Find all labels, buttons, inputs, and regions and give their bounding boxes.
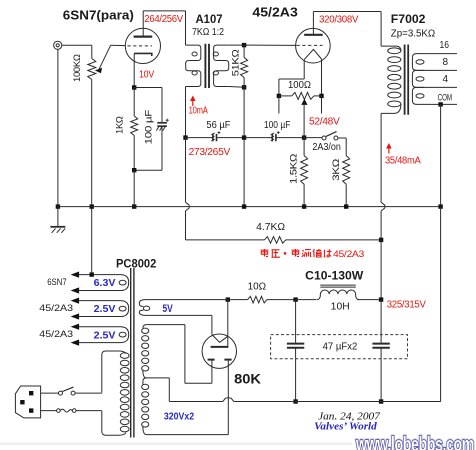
resistor R 51K leads+zigzag [241,45,248,87]
wire down to 4.7K node [380,211,382,240]
svg-text:6SN7(para): 6SN7(para) [63,9,134,23]
wire rail to 100uF [244,137,272,139]
capacitor C 47uF #1 [287,344,304,348]
svg-text:6SN7: 6SN7 [47,277,66,288]
mains plug [15,386,40,418]
wire secondary bottom lead [229,86,244,89]
node 51K-bus junction [242,204,246,208]
hum pot wiper arrow up [301,99,307,105]
choke L 10H [317,285,359,300]
node first 47uF bottom junction [293,399,297,403]
transformer T1 A107 primary winding [186,45,201,86]
wire cap branch down [161,88,163,123]
U1 cathode bar with hook [134,53,152,56]
wire HV bottom lead up to 80K right plate [227,360,229,434]
svg-text:3KΩ: 3KΩ [331,159,342,181]
svg-text:56 µF: 56 µF [206,120,230,131]
capacitor C 47uF #2 [372,344,389,348]
wire second 47uF bottom lead [380,348,382,402]
node RC-bus junction [132,204,136,208]
svg-text:F7002: F7002 [391,12,426,26]
wire bus to chassis ground [57,207,59,227]
node B+ takeoff (80K cathode) [226,297,230,301]
wire COM bus to bottom rail [440,207,442,402]
wire F7002 primary bottom down [380,113,382,202]
wire 16 ohm tap [424,53,457,55]
svg-text:Valves’ World: Valves’ World [314,421,377,432]
wire COM tap [424,103,457,105]
svg-text:80K: 80K [234,371,261,387]
T3 heater winding 6.3V [78,275,129,291]
wire 4 ohm tap [424,86,457,88]
wire secondary top to grid line [229,44,244,46]
wire rail to wiper node [276,137,304,139]
wire hop over 80K plate lead [223,398,234,402]
U3 left plate bar [208,359,215,361]
wire wiper to grid (diagonal) [99,45,111,70]
T3 heater winding 2.5V #2 [78,327,129,343]
svg-text:2.5V: 2.5V [94,303,116,315]
svg-text:273/265V: 273/265V [189,147,231,158]
wire 1K top lead [133,88,135,117]
jpeg ghost band [0,443,352,445]
svg-text:10V: 10V [139,69,155,80]
resistor R 1K zigzag [131,116,138,136]
svg-text:10mA: 10mA [189,106,208,117]
wire plug to fuse [41,410,57,412]
wire second 47uF top lead [380,300,382,343]
svg-text:8: 8 [443,57,449,68]
svg-text:47 µFx2: 47 µFx2 [323,342,358,353]
wire bottom return rail left [169,401,223,403]
wire 5V bottom to 80K filament left [211,315,213,334]
svg-text:4.7KΩ: 4.7KΩ [256,222,285,233]
wire B+ to 10R [228,299,248,301]
wire HV top lead down [184,325,186,384]
U1 grid dashed line [127,45,152,47]
wire 56uF rail left [186,137,213,139]
T3 5V winding [139,300,228,316]
U1 plate lead up [142,11,144,37]
volume pot R 100K zigzag [88,59,96,80]
U2 filament right lead [321,59,323,96]
svg-text:35/48mA: 35/48mA [385,155,421,166]
wire RC to ground bus [133,170,135,206]
svg-text:45/2A3: 45/2A3 [39,303,73,314]
node choke/B+ riser junction [379,297,383,301]
watermark www.lobebbs.com [355,433,474,450]
svg-text:2A3/on: 2A3/on [312,142,341,153]
wire pot bottom to ground bus [91,80,93,207]
wire primary feed down to bus hop [185,138,187,203]
svg-text:5V: 5V [163,303,174,315]
svg-text:100 µF: 100 µF [264,120,291,131]
svg-text:4: 4 [443,74,449,85]
svg-text:325/315V: 325/315V [387,300,427,311]
svg-text:100KΩ: 100KΩ [72,54,83,82]
dashed box around 47uF x2 [271,335,408,359]
U1 cathode lead down [133,53,135,87]
wire 3K to ground bus [345,184,347,206]
wire HV top lead right [185,382,212,384]
svg-text:100 µF: 100 µF [143,109,154,144]
U2 filament V [304,49,321,59]
svg-text:1KΩ: 1KΩ [115,116,126,134]
wire 1.5K to ground bus [303,184,305,206]
wire plug to power switch [41,392,59,394]
wire cap bottom lead [161,126,163,170]
svg-text:45/2A3: 45/2A3 [252,5,297,19]
U2 filament left lead route [279,60,304,96]
node rail/wiper junction [302,135,306,139]
wire main ground bus [58,206,441,208]
wire switch to 3K [338,138,346,156]
wire first 47uF bottom lead [295,348,297,402]
wire grid line to 45/2A3 [244,44,296,46]
wire jack sleeve to ground bus [57,49,59,206]
wire down to 4.7K run [185,211,187,240]
U2 plate bar [304,34,323,36]
node 6.3V-ground junction [90,272,94,276]
svg-text:45/2A3: 45/2A3 [333,249,364,260]
wire U1 plate to A107 primary (top run) [143,10,185,12]
wire COM down to ground bus [440,104,442,206]
svg-text:52/48V: 52/48V [309,116,340,127]
svg-text:45/2A3: 45/2A3 [39,329,73,340]
wire 10R to cap node [267,299,296,301]
wire A107 primary bottom lead down [185,87,187,138]
svg-text:A107: A107 [196,12,223,26]
svg-text:1.5KΩ: 1.5KΩ [289,154,300,184]
wire 1.5K top lead [303,138,305,156]
wire pot top lead [91,45,93,58]
capacitor C 100uF (output stage) [271,131,280,141]
node pot/bus junction [90,204,94,208]
svg-text:320/308V: 320/308V [319,14,359,25]
svg-text:6.3V: 6.3V [94,277,116,289]
capacitor C 100uF plates [156,119,168,131]
triode U2 45/2A3 envelope [296,28,331,63]
capacitor C 56uF [211,131,220,141]
wire heater stub right [321,96,323,114]
power switch [59,387,76,395]
wire heater stub left [278,96,280,114]
pot wiper arrow [95,68,102,74]
svg-text:51KΩ: 51KΩ [230,49,241,76]
node cathode junction [132,85,136,89]
wire 80K cathode lead (right) [227,300,229,347]
T2 core [405,45,409,115]
node 1.5K-bus junction [302,204,306,208]
node hum pot right [319,94,323,98]
svg-text:264/256V: 264/256V [144,14,183,25]
svg-text:www.lobebbs.com: www.lobebbs.com [355,433,474,450]
wire 51K bottom to ground bus [243,87,245,206]
label 10mA red arrow [190,96,196,107]
wire ground bus down to PC8002 6.3V winding [91,207,93,275]
wire 8 ohm tap [424,69,457,71]
wire choke to B+ node [358,299,381,301]
svg-text:320Vx2: 320Vx2 [164,410,194,422]
svg-text:10Ω: 10Ω [248,281,267,292]
wire rail to switch [304,137,322,139]
wire jack to volume pot top [62,44,92,46]
node 3K-bus junction [344,204,348,208]
wire cap bottom to 1K bottom [134,169,162,171]
svg-text:2.5V: 2.5V [94,329,116,341]
wire B+ riser to choke node [380,240,382,300]
svg-text:COM: COM [438,92,453,102]
T3 core [131,268,134,438]
wire to 80K left plate [211,360,213,383]
node COM junction [438,102,442,106]
wire bottom return rail right [234,401,441,403]
svg-text:Zp=3.5KΩ: Zp=3.5KΩ [391,28,436,39]
U2 grid dashed line [297,44,323,46]
wire wiper down to 100uF rail [303,105,305,138]
wire cap node to choke [296,299,317,301]
U2 plate lead up [312,12,314,35]
wire 1K bottom lead [133,136,135,171]
switch SW 2A3/on [322,132,338,140]
U3 right plate bar [224,359,231,361]
input jack J1 [54,41,62,49]
resistor R 1.5K zigzag [301,156,308,185]
T3 heater winding 2.5V #1 [78,301,129,317]
label 35/48mA red arrow [386,143,392,154]
ground chassis symbol [50,227,65,233]
node rail/51K-drop junction [242,135,246,139]
svg-text:10H: 10H [331,301,350,312]
svg-text:7KΩ 1:2: 7KΩ 1:2 [192,27,224,38]
wire down to F7002 primary top [380,12,382,47]
U3 cathode bar [211,346,229,348]
node second 47uF bottom junction [379,399,383,403]
U1 plate bar [134,35,153,37]
wire HV center tap down [168,378,170,402]
T3 HV winding 320Vx2 [142,325,229,435]
wire switch to primary top [75,392,102,394]
fuse [57,409,76,413]
wire fuse to primary bottom [76,410,102,412]
wire cathode rail to cap branch [134,87,162,89]
svg-text:C10-130W: C10-130W [305,268,364,282]
resistor R 10 zigzag [248,296,267,303]
wire grid lead of U1 [111,44,126,46]
rectifier U3 80K envelope [202,334,236,368]
node jack-ground bus junction [56,204,60,208]
T3 mains primary winding [102,351,129,435]
U3 filament V [212,335,228,343]
wire 56uF to 51K node [217,137,245,139]
label red note kanji (電圧・電流値は) [261,249,332,257]
transformer T1 A107 secondary winding [214,45,229,86]
resistor R 3K zigzag [343,156,350,185]
wire first 47uF top lead [295,300,297,343]
node RC bottom junction [132,168,136,172]
svg-text:100Ω: 100Ω [288,80,311,91]
svg-text:PC8002: PC8002 [116,256,157,270]
node hum pot left [277,94,281,98]
T1 core [205,44,209,88]
node 4.7K/B+ junction [379,238,383,242]
node primary-bottom/56uF junction [183,135,187,139]
node first filter cap top [293,297,297,301]
wire hop over ground bus [186,202,190,211]
node secondary-top/51K junction [242,43,246,47]
resistor R 4.7K run [186,237,382,244]
hum pot R 100 zigzag [279,92,322,99]
transformer T2 F7002 secondary winding [412,54,424,105]
transformer T2 F7002 primary winding [381,46,401,113]
triode U1 6SN7 envelope [125,28,160,63]
wire U2 plate to F7002 primary [313,11,381,13]
svg-text:16: 16 [440,40,450,51]
node secondary-bottom/51K junction [242,85,246,89]
wire hop over ground bus (right) [381,202,385,211]
wire down to A107 primary top [185,11,187,45]
node COM-bus junction [438,204,442,208]
